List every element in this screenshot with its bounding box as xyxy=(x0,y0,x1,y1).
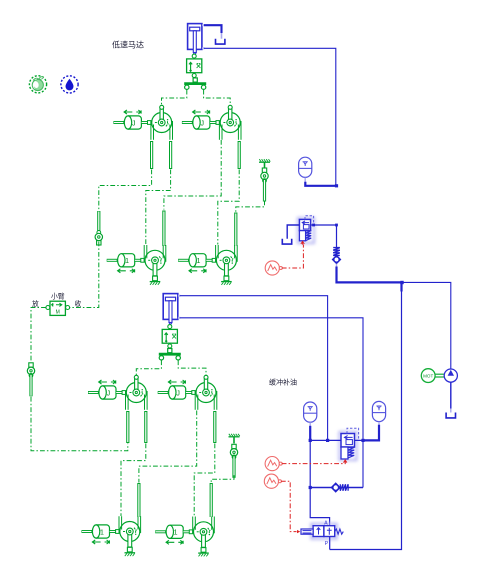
pipe P1 right xyxy=(169,141,172,169)
wire SC2 node to valve DV port A xyxy=(310,488,329,527)
pipe P3 right xyxy=(144,411,147,443)
red pilot arrow into RV1 xyxy=(301,241,304,244)
pipe M6 right upper xyxy=(210,483,213,517)
red wire G2 to RV2 pilot xyxy=(282,462,346,464)
svg-text:J: J xyxy=(201,120,205,127)
icon fluid properties (blue drop) xyxy=(61,76,78,93)
anchored check valve CV4 xyxy=(229,434,240,478)
wire junction stub xyxy=(400,282,402,291)
pipe M3 right upper xyxy=(162,211,165,247)
wire C2 rod-port to node W1 xyxy=(180,296,328,441)
wire ACC2 to node W1 xyxy=(309,422,311,440)
svg-text:MOT: MOT xyxy=(423,374,433,379)
motor load I4 xyxy=(178,254,216,267)
signal generator G2 xyxy=(265,457,282,471)
svg-text:J: J xyxy=(107,390,111,397)
svg-text:小臂: 小臂 xyxy=(51,292,65,301)
signal generator G3 xyxy=(264,474,281,488)
wire CV1 to command block MB1 xyxy=(69,242,99,308)
wire P2 left to motor M3 right xyxy=(164,140,221,210)
pump P1 xyxy=(151,105,173,140)
pipe P2 right xyxy=(238,141,241,169)
wire node V2 to junction J-right xyxy=(337,225,404,284)
tank T3 xyxy=(446,413,455,418)
accumulator ACC3 xyxy=(372,401,385,421)
inertia load J3 xyxy=(88,386,126,399)
motor load I3 xyxy=(107,254,145,267)
wire CV3 to pump P3 left xyxy=(31,397,128,451)
svg-text:1: 1 xyxy=(174,530,178,537)
pilot relief valve RV2 xyxy=(340,428,359,460)
wire C1 bottom-port to node V1 xyxy=(204,48,336,186)
inertia load J4 xyxy=(158,386,196,399)
directional valve DV xyxy=(301,520,343,547)
wire ACC2 node down to SC2 line xyxy=(309,440,311,487)
svg-text:M: M xyxy=(56,309,60,315)
accumulator ACC1 xyxy=(299,157,312,177)
wire CV4 to motor M6 right xyxy=(211,475,234,482)
motor M5 xyxy=(119,516,141,556)
spring check SC2 xyxy=(309,483,363,491)
pilot relief valve RV1 xyxy=(298,216,314,243)
svg-text:收: 收 xyxy=(75,299,82,308)
lever beam B1 xyxy=(184,78,206,90)
wire P4 right to motor M6 left xyxy=(194,444,215,517)
svg-text:低速马达: 低速马达 xyxy=(112,40,144,50)
wire RV1 drain to tank T2 xyxy=(287,225,299,239)
wire RV1 outlet to node V2 xyxy=(311,224,338,227)
motor M4 xyxy=(216,245,238,285)
wire P2 right to motor M4 left xyxy=(218,170,239,245)
wire ACC1 to node V1 xyxy=(305,178,338,188)
wire P4 left to motor M5 right xyxy=(139,411,197,483)
signal generator G1 xyxy=(265,261,282,275)
pump P4 xyxy=(195,375,217,410)
wire C2 bottom-port to node W2 xyxy=(180,318,363,488)
anchored check valve CV2 xyxy=(259,159,270,201)
svg-text:1: 1 xyxy=(197,258,201,265)
icon gravity (green apple) xyxy=(29,76,46,93)
command block MB1 xyxy=(46,301,70,315)
pipe P3 left xyxy=(126,411,129,443)
wire beam B2 right to pump P4 control xyxy=(178,360,206,375)
check valve CV1 xyxy=(95,211,102,245)
motor load I5 xyxy=(82,525,120,538)
wire ACC3 to node W2 xyxy=(363,422,379,441)
inertia load J2 xyxy=(182,116,220,129)
svg-text:1: 1 xyxy=(125,258,129,265)
position sensor U2 xyxy=(162,325,177,348)
svg-text:缓冲补油: 缓冲补油 xyxy=(269,378,297,387)
inertia load J1 xyxy=(113,116,151,129)
wire CV2 to motor M4 right xyxy=(236,201,265,213)
accumulator ACC2 xyxy=(304,402,317,422)
wire beam B1 left to pump P1 control xyxy=(162,90,187,105)
wire beam B1 right to pump P2 control xyxy=(204,90,231,105)
svg-text:J: J xyxy=(176,390,180,397)
lever beam B2 xyxy=(159,349,181,361)
spring check SC1 xyxy=(333,248,341,267)
svg-text:J: J xyxy=(132,120,136,127)
tank T2 xyxy=(282,239,291,244)
wire C1 rod-port to tank T1 xyxy=(204,25,222,33)
cylinder C1 xyxy=(188,24,205,55)
wire PS to tank T3 xyxy=(450,382,452,412)
wire MB1 to check valve CV3 xyxy=(31,308,46,362)
cylinder C2 xyxy=(163,294,180,325)
pump P2 xyxy=(219,105,241,140)
wire junction down to pilot valve DV xyxy=(330,282,402,549)
red pilot arrow into RV2 xyxy=(344,460,347,463)
red wire G3 to DV solenoid xyxy=(281,481,300,533)
wire P3 right to motor M5 left xyxy=(121,444,146,517)
wire P1 left to check valve CV1 xyxy=(99,170,152,211)
pipe M4 right upper xyxy=(234,213,237,247)
position sensor U1 xyxy=(187,54,202,77)
tank T1 xyxy=(216,39,225,44)
pipe P4 right xyxy=(213,411,216,443)
motor load I6 xyxy=(155,525,193,538)
wire junction to supply pump PS xyxy=(402,282,451,369)
wire P1 right to motor M3 left xyxy=(146,170,171,245)
motor M3 xyxy=(144,245,166,285)
check valve CV3 xyxy=(27,363,34,397)
red wire G1 to RV1 pilot xyxy=(282,245,304,269)
svg-text:P: P xyxy=(325,541,329,547)
prime mover MOT xyxy=(421,369,444,383)
wire DV port P to bottom rail xyxy=(329,537,331,550)
svg-text:1: 1 xyxy=(100,529,104,536)
wire RV2 ports across nodes xyxy=(309,439,379,442)
motor M6 xyxy=(193,517,215,557)
pump P3 xyxy=(126,375,148,410)
pipe M5 right upper xyxy=(137,483,140,517)
supply pump PS xyxy=(444,369,457,382)
svg-text:放: 放 xyxy=(32,299,39,308)
pipe P1 left xyxy=(150,141,153,169)
wire beam B2 left to pump P3 control xyxy=(136,360,161,375)
